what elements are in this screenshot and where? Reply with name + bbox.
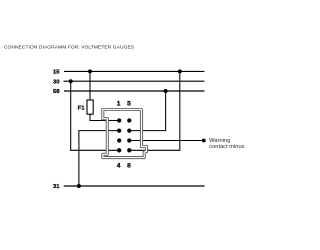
pin 2 [117,128,121,132]
wire from pin 7 to warning contact terminal [129,140,202,142]
svg-text:31: 31 [53,184,60,190]
pin 6 [127,128,131,132]
wire from 15 down to fuse F1 [89,71,91,100]
wire from fuse F1 to pin 1 [90,114,119,120]
wire bus 15 [64,70,204,72]
wire from 30 to pin 4 [71,81,120,150]
junction on 15 at fuse tap [88,69,92,73]
junction on 31 [77,184,81,188]
junction on 58 [164,89,168,93]
svg-text:8: 8 [127,163,131,170]
wire from 58 to pin 6 [129,91,165,131]
pin 4 [117,148,121,152]
svg-text:15: 15 [53,70,60,76]
pin 8 [127,148,131,152]
wire bus 31 [64,185,205,187]
svg-text:4: 4 [117,163,121,170]
wire bus 30 [64,80,205,82]
svg-text:CONNECTION DIAGRAMM FOR: VOLTM: CONNECTION DIAGRAMM FOR: VOLTMETER GAUGE… [4,44,135,50]
pin 1 [117,118,121,122]
pin 7 [127,138,131,142]
svg-text:1: 1 [117,101,121,108]
pin 3 [117,138,121,142]
wire from pin 2 to bus 31 [79,131,119,186]
svg-text:30: 30 [53,79,60,85]
pin 5 [127,118,131,122]
svg-text:contact minus: contact minus [209,144,244,150]
warning contact terminal dot [202,139,206,143]
svg-text:F1: F1 [78,105,86,111]
svg-text:5: 5 [127,101,131,108]
wire from 15 to pin 8 [129,71,180,150]
svg-text:58: 58 [53,89,60,95]
connector U1 housing outline [103,110,147,158]
junction on 15 at right riser [178,69,182,73]
junction on 30 [69,79,73,83]
fuse F1 body [87,100,93,114]
wire bus 58 [64,90,204,92]
